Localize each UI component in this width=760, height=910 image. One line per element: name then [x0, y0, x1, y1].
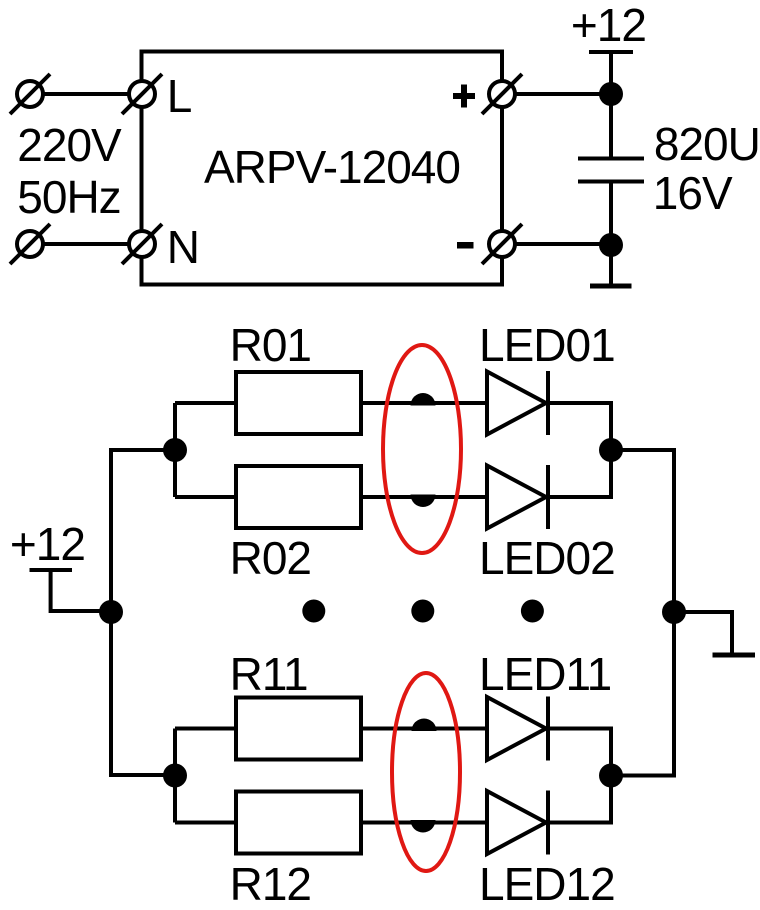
ground top right bar [590, 284, 632, 289]
terminal N on module [122, 224, 162, 264]
wire to R02 [175, 495, 236, 499]
highlight ellipse top connection [383, 345, 461, 553]
svg-text:820U: 820U [654, 118, 760, 170]
pad bump R12 wire [411, 820, 436, 833]
wire R01 to LED01 [361, 401, 487, 405]
power module U1 ARPV-12040 box [142, 52, 503, 285]
power rail +12 left bar [30, 568, 73, 572]
svg-text:+12: +12 [571, 0, 646, 51]
wire N input [43, 242, 129, 246]
wire R11 to LED11 [361, 727, 487, 731]
svg-text:LED02: LED02 [479, 532, 615, 584]
node dot bottom splitter [163, 764, 187, 788]
pad bump R02 wire [411, 495, 436, 507]
svg-text:R02: R02 [230, 532, 311, 584]
resistor R11 [236, 698, 361, 760]
svg-text:R12: R12 [230, 858, 311, 910]
wire node to capacitor top [609, 94, 613, 157]
node dot top splitter [163, 438, 187, 462]
LED LED02 [487, 465, 548, 529]
wire to R01 [175, 401, 236, 405]
pad bump R11 wire [412, 719, 437, 732]
svg-text:LED01: LED01 [479, 319, 615, 371]
svg-text:L: L [167, 70, 192, 122]
node dot right bus ground [662, 600, 686, 624]
svg-text:N: N [167, 221, 199, 273]
node dot LED01/02 join [599, 438, 623, 462]
wire L input [43, 92, 129, 96]
resistor R01 [236, 372, 361, 434]
node dot +12 left bus [99, 600, 123, 624]
power rail +12 top bar [589, 50, 633, 54]
continuation dot 3 [521, 600, 544, 623]
highlight ellipse bottom connection [392, 673, 460, 871]
node dot LED11/12 join [599, 764, 623, 788]
node dot +12 cap top [599, 82, 623, 106]
wire left bus vertical [111, 450, 175, 775]
wire + output [515, 92, 611, 96]
ground bottom right bar [713, 653, 756, 658]
svg-text:R01: R01 [230, 319, 311, 371]
wire ground branch right [674, 612, 732, 653]
continuation dot 1 [302, 600, 325, 623]
wire - output [515, 242, 611, 246]
wire LED01 cathode to node [548, 403, 611, 450]
wire node to ground top [609, 245, 613, 284]
node dot cap bottom [599, 233, 623, 257]
wire R12 to LED12 [361, 821, 487, 825]
wire LED11 cathode to node [548, 729, 611, 776]
wire R02 to LED02 [361, 495, 487, 499]
terminal X1 mains L [10, 74, 50, 114]
wire capacitor bottom to node [609, 183, 613, 245]
svg-text:50Hz: 50Hz [17, 171, 120, 223]
label + [453, 85, 475, 108]
wire to R12 [175, 821, 236, 825]
wire LED02 cathode to node [548, 450, 611, 497]
svg-text:16V: 16V [653, 167, 733, 219]
terminal + on module [482, 74, 522, 114]
wire to R11 [175, 727, 236, 731]
label - [457, 242, 474, 249]
wire +12 left stem [51, 570, 111, 611]
terminal L on module [122, 74, 162, 114]
svg-text:220V: 220V [17, 119, 122, 171]
resistor R02 [236, 466, 361, 528]
wire bottom pair splitter vertical [173, 729, 177, 823]
svg-text:R11: R11 [230, 648, 308, 700]
wire top pair splitter vertical [173, 403, 177, 497]
resistor R12 [236, 792, 361, 854]
svg-text:LED11: LED11 [479, 648, 611, 700]
LED LED12 [487, 791, 548, 855]
svg-text:ARPV-12040: ARPV-12040 [204, 141, 460, 193]
LED LED01 [487, 371, 548, 435]
wire LED12 cathode to node [548, 776, 611, 823]
continuation dot 2 [411, 600, 434, 623]
terminal X2 mains N [10, 224, 50, 264]
wire +12 stem to node [609, 52, 613, 94]
LED LED11 [487, 697, 548, 761]
capacitor C1 top plate [578, 157, 644, 161]
pad bump R01 wire [411, 393, 436, 406]
svg-text:LED12: LED12 [479, 858, 615, 910]
wire right bus [611, 450, 674, 776]
capacitor C1 bottom plate [578, 180, 644, 184]
terminal - on module [482, 224, 522, 264]
svg-text:+12: +12 [10, 518, 85, 570]
